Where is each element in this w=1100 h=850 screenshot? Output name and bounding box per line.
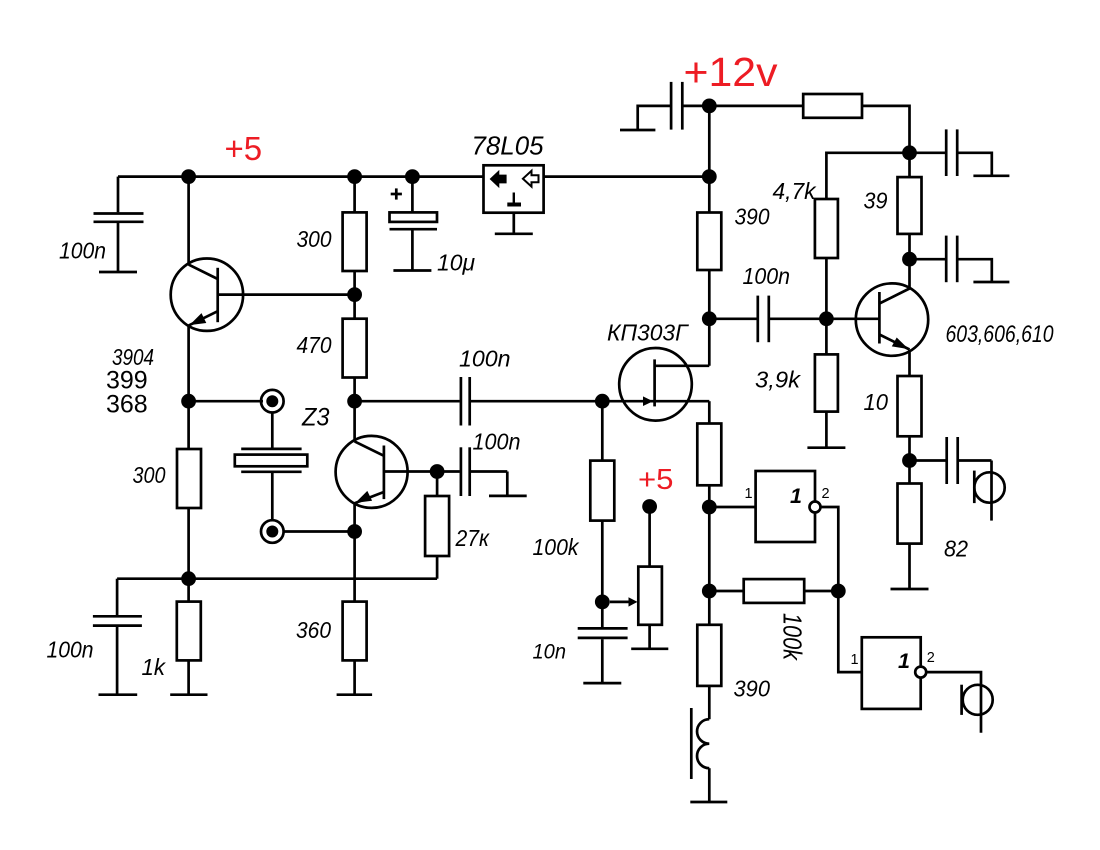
svg-text:360: 360 [296,617,331,643]
svg-text:27к: 27к [455,525,490,551]
svg-text:1: 1 [745,486,753,502]
svg-text:470: 470 [297,332,332,358]
svg-text:100n: 100n [473,429,521,455]
svg-text:100n: 100n [459,346,511,372]
svg-text:1k: 1k [142,654,167,680]
svg-text:300: 300 [297,226,332,252]
svg-text:1: 1 [898,649,910,673]
svg-text:39: 39 [864,188,888,214]
svg-text:+5: +5 [225,130,263,167]
svg-text:78L05: 78L05 [472,131,545,161]
svg-text:100n: 100n [47,637,94,663]
svg-text:1: 1 [790,484,802,508]
svg-text:100k: 100k [778,613,808,662]
svg-text:390: 390 [734,676,771,702]
svg-text:1: 1 [851,652,859,668]
svg-text:Z3: Z3 [301,404,330,432]
svg-text:2: 2 [927,650,935,666]
svg-text:82: 82 [944,536,968,562]
svg-text:4,7k: 4,7k [773,178,817,204]
svg-text:10μ: 10μ [437,250,475,276]
svg-text:КП303Г: КП303Г [607,320,690,346]
svg-text:10n: 10n [533,640,567,664]
svg-text:100n: 100n [59,238,106,264]
svg-text:100n: 100n [743,263,791,289]
svg-text:300: 300 [133,462,166,488]
svg-text:368: 368 [106,391,148,419]
svg-text:3,9k: 3,9k [755,367,801,393]
svg-text:+12v: +12v [684,49,779,95]
svg-text:100k: 100k [533,534,580,560]
svg-text:2: 2 [822,486,830,502]
svg-text:10: 10 [864,389,889,415]
svg-text:603,606,610: 603,606,610 [946,321,1055,348]
svg-text:390: 390 [735,204,770,230]
svg-text:+5: +5 [638,464,674,496]
